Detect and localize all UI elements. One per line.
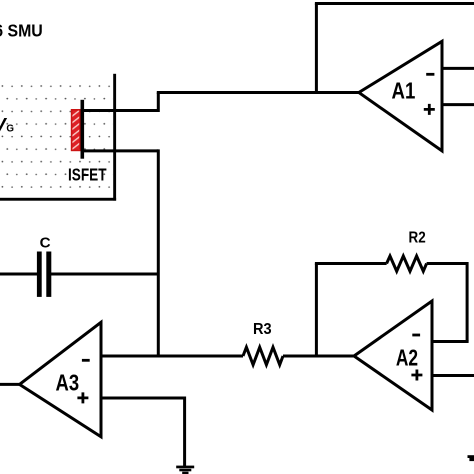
wire A3 minus to R3 — [101, 355, 243, 358]
wire R2 left horizontal — [315, 262, 387, 265]
svg-text:6 SMU: 6 SMU — [0, 22, 43, 41]
wire A3 output to left edge — [0, 383, 20, 386]
svg-text:C: C — [40, 235, 51, 252]
wire capacitor right lead to bus — [51, 273, 158, 276]
svg-text:ISFET: ISFET — [68, 165, 107, 185]
wire feedback vertical at x316 — [315, 4, 318, 95]
wire A1 plus input to right edge — [442, 103, 474, 106]
svg-text:G: G — [6, 124, 14, 135]
op-amp A1 (points left) — [359, 41, 442, 151]
A3 plus input symbol — [77, 392, 88, 403]
wire A2 minus input — [432, 340, 469, 343]
wire A3 plus input horizontal — [101, 397, 185, 400]
ground — [176, 466, 194, 474]
op-amp A3 (points left) — [20, 322, 102, 437]
svg-text:R3: R3 — [253, 321, 272, 338]
wire long vertical bus x158 — [157, 149, 160, 356]
op-amp A2 (points left) — [354, 301, 432, 410]
wire capacitor left lead — [0, 273, 38, 276]
wire jog up at x158 — [157, 93, 160, 113]
wire R2 right vertical down to A2 minus — [466, 262, 469, 342]
wire electrode lower branch — [83, 149, 159, 152]
A1 plus input symbol — [424, 104, 435, 115]
wire A1 minus input to right edge — [442, 67, 474, 70]
solution beaker right border — [113, 74, 116, 201]
A2 plus input symbol — [411, 370, 422, 381]
svg-text:A2: A2 — [396, 344, 418, 370]
A2 minus input symbol — [412, 334, 420, 337]
capacitor C plates — [37, 252, 42, 297]
wire electrode to A1 output (lower jog) — [83, 109, 159, 112]
wire feedback top horizontal to right edge — [315, 2, 474, 5]
svg-text:A3: A3 — [56, 370, 80, 396]
wire A1 output horizontal — [157, 91, 359, 94]
wire A2 plus input to right edge — [432, 374, 474, 377]
A1 minus input symbol — [426, 73, 434, 76]
resistor R2 — [387, 256, 427, 271]
wire R3 to A2 input — [283, 355, 354, 358]
solution region dotted fill — [0, 81, 113, 199]
wire R2 right horizontal — [427, 262, 468, 265]
svg-text:A1: A1 — [392, 78, 416, 104]
solution beaker bottom border — [0, 198, 116, 201]
A3 minus input symbol — [82, 359, 90, 362]
wire A3 plus down to ground — [183, 397, 186, 467]
wire R2 left vertical — [315, 264, 318, 358]
ground (partial, right edge) — [468, 455, 474, 461]
resistor R3 — [243, 347, 283, 365]
svg-text:R2: R2 — [409, 229, 426, 246]
ISFET gate electrode bar — [81, 100, 85, 159]
ISFET gate sensing membrane (red hatched) — [72, 110, 80, 151]
